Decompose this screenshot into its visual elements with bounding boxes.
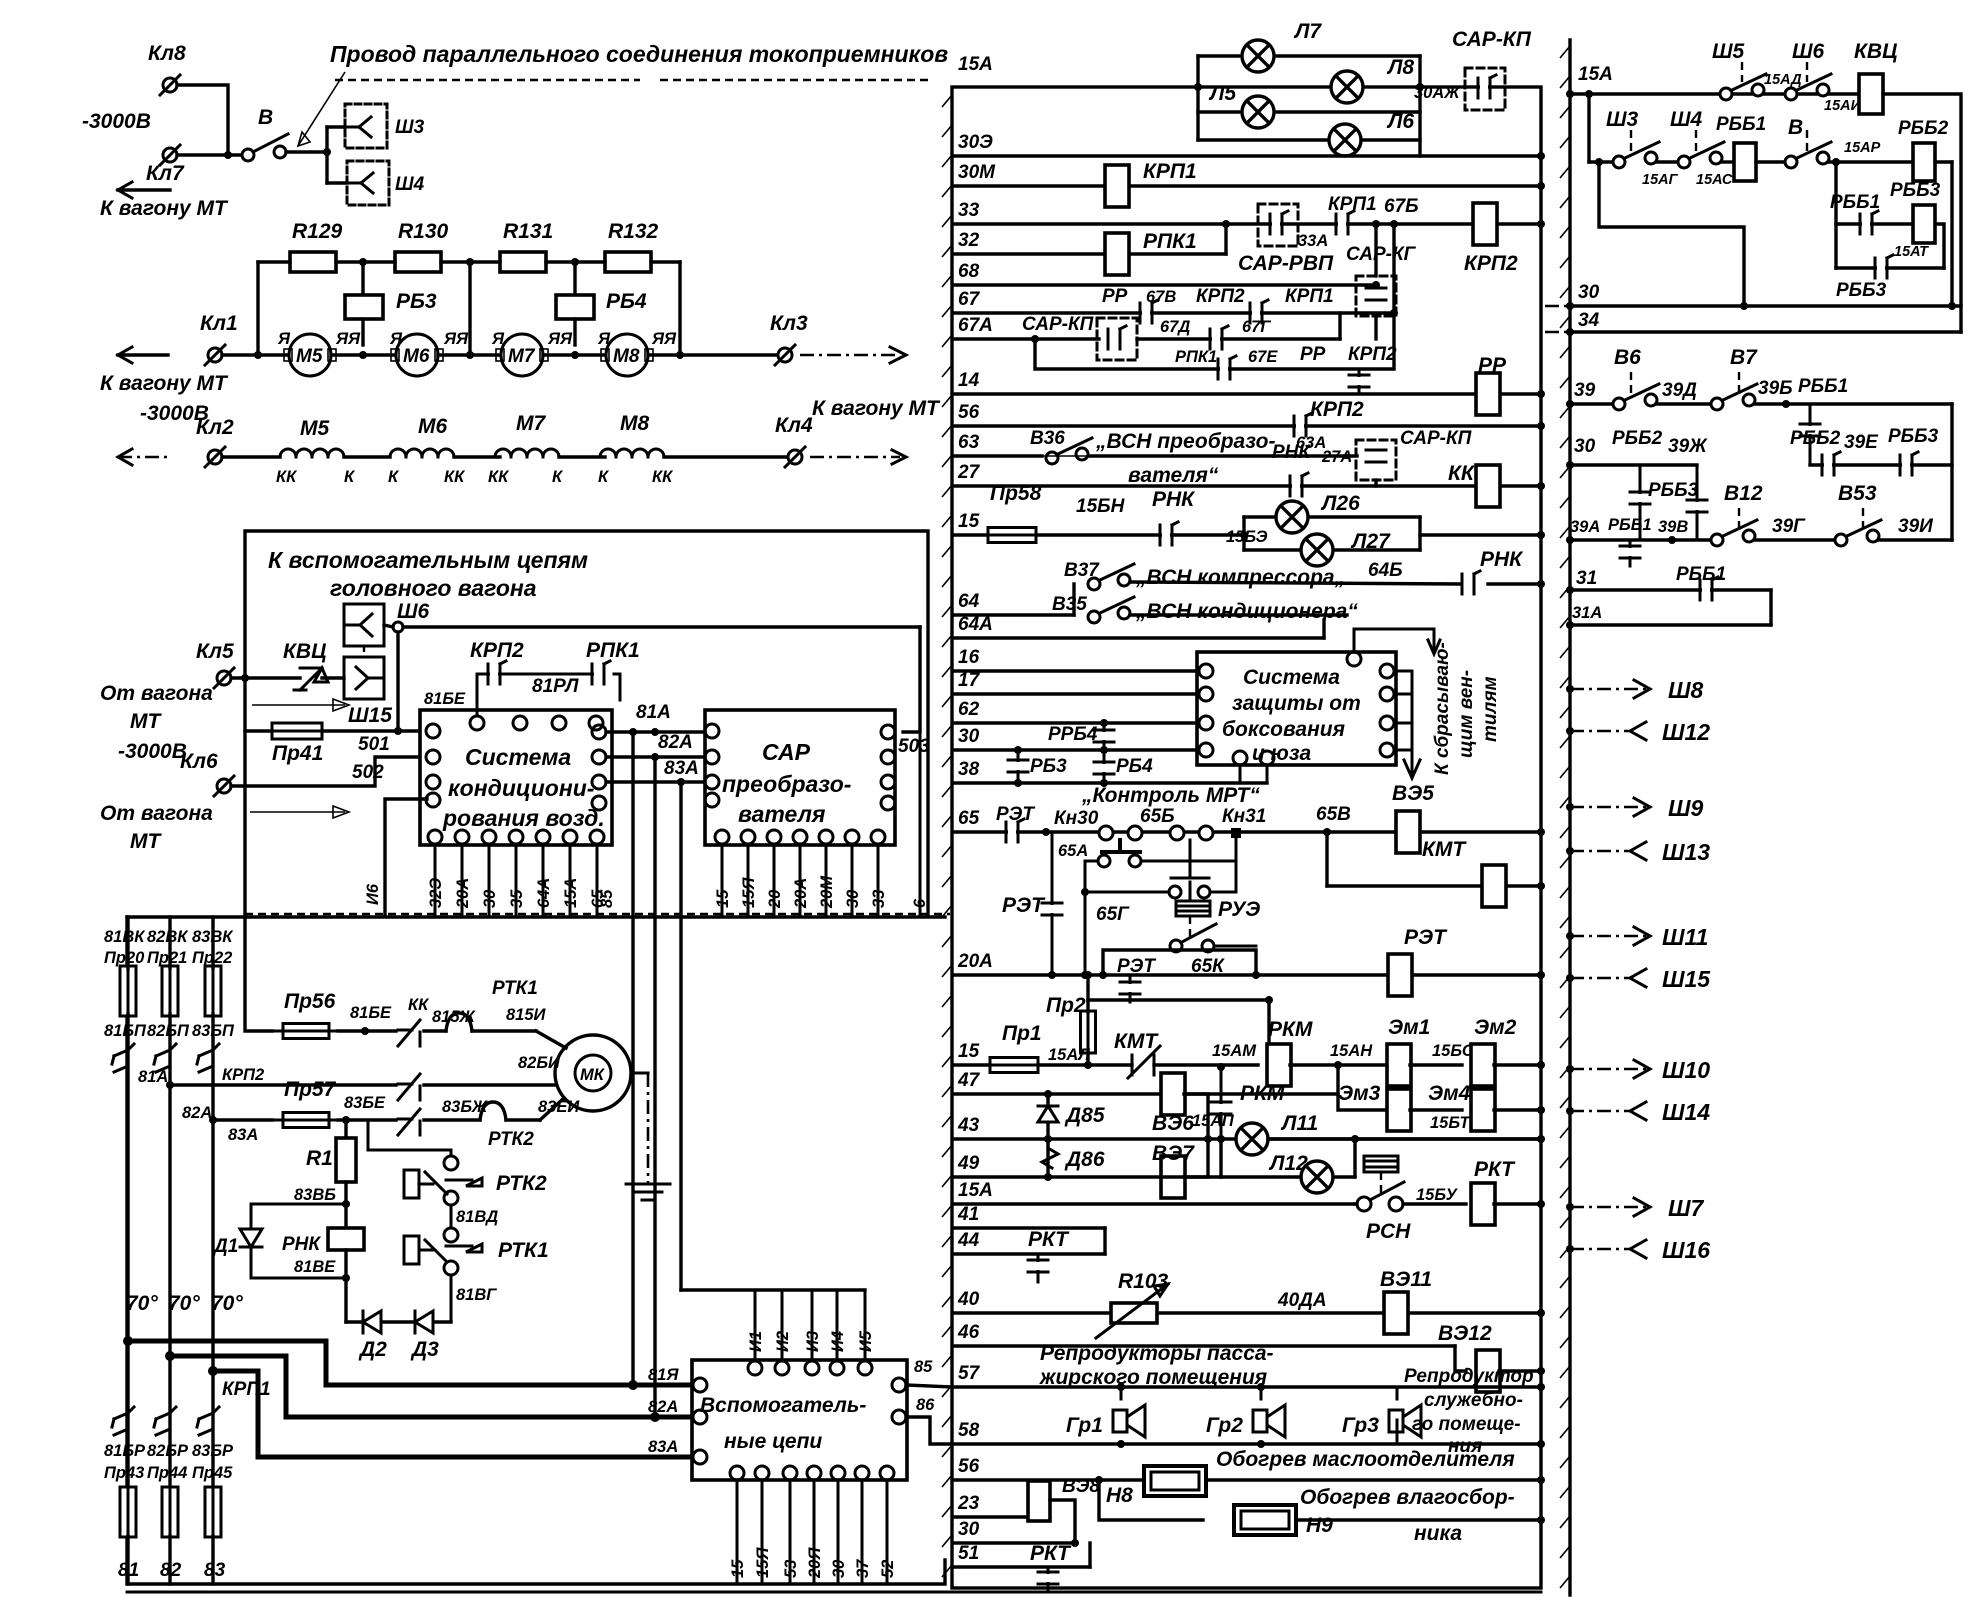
svg-text:Н9: Н9 [1306,1514,1333,1537]
svg-text:Кл4: Кл4 [775,414,813,437]
svg-text:САР-КП: САР-КП [1400,428,1472,449]
svg-text:Пр1: Пр1 [1002,1022,1042,1045]
svg-text:„ВСН преобразо-: „ВСН преобразо- [1095,430,1276,453]
lamp network rails [1196,56,1199,140]
fuse Пр21 [162,958,178,1024]
svg-text:САР-КП: САР-КП [1022,314,1094,335]
svg-text:20М: 20М [818,875,836,909]
svg-text:РТК2: РТК2 [496,1172,547,1195]
svg-text:ВЭ5: ВЭ5 [1392,782,1434,805]
motor М6 [396,334,438,376]
svg-text:30: 30 [844,889,862,908]
wire 82 run [170,1356,700,1417]
svg-text:К вагону МТ: К вагону МТ [100,197,229,220]
svg-text:39И: 39И [1898,516,1933,537]
svg-text:56: 56 [958,1456,980,1477]
svg-text:57: 57 [958,1363,981,1384]
relay КМТ wire [1325,832,1328,886]
svg-text:рования возд.: рования возд. [442,805,605,831]
svg-text:20: 20 [766,889,784,909]
svg-text:РПК1: РПК1 [1143,230,1197,253]
lamp Л26 [1276,501,1308,533]
svg-text:Эм3: Эм3 [1338,1082,1381,1105]
svg-text:Л5: Л5 [1208,82,1236,105]
svg-text:51: 51 [958,1543,979,1564]
svg-text:81ВД: 81ВД [456,1208,498,1226]
svg-text:В7: В7 [1730,346,1758,369]
svg-text:КК: КК [276,468,298,486]
svg-text:щим вен-: щим вен- [1456,670,1477,758]
svg-text:39Д: 39Д [1662,380,1697,401]
svg-text:ВЭ11: ВЭ11 [1380,1268,1432,1291]
svg-text:15Я: 15Я [754,1547,772,1578]
relay РКТ [1403,1202,1466,1205]
svg-text:Провод параллельного соедине: Провод параллельного соединения токоприе… [330,41,948,67]
svg-text:КМТ: КМТ [1422,838,1467,861]
svg-text:Ш9: Ш9 [1668,795,1704,821]
bottom pin stubs Система [434,844,437,914]
svg-text:64Б: 64Б [1368,560,1403,581]
svg-text:В: В [1788,116,1803,139]
svg-text:В36: В36 [1030,428,1065,449]
fuse Пр43 [120,1479,136,1545]
lamp Л6 [1329,124,1361,156]
svg-text:Д3: Д3 [410,1338,439,1361]
svg-text:Система: Система [465,744,571,770]
svg-text:44: 44 [957,1230,980,1251]
svg-text:83БР: 83БР [192,1442,234,1460]
svg-text:РКТ: РКТ [1030,1542,1072,1565]
svg-text:39Г: 39Г [1772,516,1806,537]
svg-text:40: 40 [957,1289,980,1310]
svg-text:Кл3: Кл3 [770,312,808,335]
box auxiliary compressor section [127,917,945,1584]
motor М7 [501,334,543,376]
bus line under aux boxes [245,913,950,915]
svg-text:Пр43: Пр43 [104,1464,144,1482]
svg-text:82А: 82А [658,732,693,753]
svg-text:РТК2: РТК2 [488,1129,534,1150]
svg-text:62: 62 [958,699,980,720]
svg-text:68: 68 [958,261,980,282]
svg-text:67А: 67А [958,315,993,336]
switch РЭТ 65К [1170,924,1216,952]
vertical feeders 81А 82А 83А [631,732,634,1385]
svg-text:Ш6: Ш6 [397,600,430,623]
svg-text:РКМ: РКМ [1240,1082,1285,1105]
wire resistor chain [258,260,290,263]
svg-text:РЭТ: РЭТ [996,804,1035,825]
diode Д85 [1046,1094,1049,1177]
И bus [681,1288,865,1291]
svg-text:83А: 83А [648,1438,678,1456]
lamp Л11 [1217,1135,1225,1143]
wire 836Е row [338,1118,396,1121]
svg-text:Кл5: Кл5 [196,640,234,663]
svg-text:РРБ4: РРБ4 [1048,724,1098,745]
svg-text:вателя“: вателя“ [1128,464,1219,487]
relay РР [1476,373,1500,415]
svg-text:Я: Я [389,330,403,348]
contact КРП2 to РР [1358,369,1361,394]
svg-text:Н8: Н8 [1106,1484,1133,1507]
svg-text:Я: Я [277,330,291,348]
svg-text:33: 33 [870,890,888,908]
svg-text:81ВЕ: 81ВЕ [294,1258,336,1276]
bottom stubs Вспом цепи [736,1480,739,1584]
svg-text:ные цепи: ные цепи [724,1430,822,1453]
svg-text:РНК: РНК [1152,488,1196,511]
field winding wire [222,455,280,458]
svg-text:15АР: 15АР [1844,140,1881,156]
relay КК [1476,465,1500,507]
relay ВЭ12 [1455,1346,1466,1371]
diode Д86 thermal [1042,1148,1058,1168]
svg-text:30: 30 [958,1519,980,1540]
svg-text:Л7: Л7 [1293,20,1322,43]
svg-text:Л8: Л8 [1386,56,1414,79]
svg-text:Л27: Л27 [1350,530,1391,553]
svg-text:головного вагона: головного вагона [330,575,537,601]
relay ВЭ6 [1161,1073,1185,1115]
motor М5 [289,334,331,376]
svg-text:30: 30 [958,726,980,747]
svg-text:30Э: 30Э [958,132,993,153]
svg-text:16: 16 [958,647,980,668]
svg-text:30: 30 [1578,282,1600,303]
svg-text:67: 67 [958,289,981,310]
wire Кл8 to switch В [177,85,228,155]
svg-text:Ш15: Ш15 [1662,966,1711,992]
svg-text:81БП: 81БП [104,1022,147,1040]
svg-text:К сбрасываю-: К сбрасываю- [1432,642,1453,775]
svg-text:РКТ: РКТ [1028,1228,1070,1251]
thermal switch РТК1 [450,1275,453,1322]
box САР преобразователя [705,710,895,845]
svg-text:го помеще-: го помеще- [1412,1414,1521,1435]
svg-text:М8: М8 [613,346,640,367]
svg-text:САР-РВП: САР-РВП [1238,252,1334,275]
svg-text:РББ3: РББ3 [1890,180,1941,201]
svg-text:Пр58: Пр58 [990,482,1042,505]
svg-text:70°: 70° [168,1292,200,1315]
wire И6 stub [385,799,427,914]
svg-text:Ш4: Ш4 [395,174,425,195]
svg-text:81БЕ: 81БЕ [424,690,466,708]
resistor R1 [344,1120,347,1138]
svg-text:Л6: Л6 [1386,110,1414,133]
svg-text:39Е: 39Е [1844,432,1879,453]
connector Ш3 [345,104,387,148]
svg-text:Пр41: Пр41 [272,742,323,765]
svg-text:41: 41 [957,1204,979,1225]
svg-text:КРП2: КРП2 [470,639,524,662]
branch РББ1 contact 15АТ [1834,162,1837,268]
svg-text:81А: 81А [138,1068,168,1086]
svg-text:К вагону МТ: К вагону МТ [100,372,229,395]
svg-text:67Б: 67Б [1384,196,1419,217]
svg-text:39В: 39В [1658,518,1688,536]
svg-text:И1: И1 [747,1331,765,1352]
svg-text:РББ3: РББ3 [1836,280,1887,301]
svg-text:15АН: 15АН [1330,1042,1373,1060]
connector Ш15 [344,657,384,699]
box Система кондиционирования воздуха [420,710,612,845]
connector Ш4 [347,161,389,205]
wires box bottom pins [1239,765,1242,783]
svg-text:65В: 65В [1316,804,1351,825]
svg-text:И6: И6 [364,883,382,905]
wire 501 [322,729,430,732]
relay ВЭ7 [1161,1156,1185,1198]
wire 82А [606,755,705,758]
svg-text:КРП1: КРП1 [1143,160,1197,183]
ground for МК [631,1072,648,1075]
svg-text:РПК1: РПК1 [586,639,640,662]
svg-text:От вагона: От вагона [100,682,213,705]
svg-text:МК: МК [580,1066,606,1084]
svg-text:47: 47 [957,1070,981,1091]
svg-text:40ДА: 40ДА [1277,1290,1327,1311]
svg-text:Я: Я [491,330,505,348]
wire 82БИ row [170,1083,396,1086]
arrow continuation right [800,354,900,357]
svg-text:Пр57: Пр57 [284,1078,337,1101]
svg-text:САР: САР [762,739,811,765]
motor bus wire [222,353,290,356]
wire lamp Л6 [1198,138,1420,141]
svg-text:56: 56 [958,402,980,423]
arrow Ш9 [1570,806,1650,809]
svg-text:Д86: Д86 [1064,1148,1105,1171]
svg-text:15А: 15А [562,878,580,908]
svg-text:27А: 27А [1321,448,1352,466]
svg-text:39Б: 39Б [1758,378,1793,399]
contact РЭТ below 20А [1129,977,1132,1002]
svg-text:Кл6: Кл6 [180,750,218,773]
svg-text:РББ1: РББ1 [1798,376,1848,397]
svg-text:83ВБ: 83ВБ [294,1186,336,1204]
svg-text:30: 30 [481,889,499,908]
svg-text:РУЭ: РУЭ [1218,898,1260,921]
svg-text:К вспомогательным цепям: К вспомогательным цепям [268,547,588,573]
svg-text:64А: 64А [535,878,553,908]
wire lamp Л5 [1198,110,1420,113]
svg-text:М7: М7 [516,412,546,435]
svg-text:М5: М5 [300,417,329,440]
svg-text:Ш3: Ш3 [1606,108,1639,131]
relay КРП2 [1473,203,1497,245]
arrow От вагона МТ [252,704,345,706]
svg-text:65Г: 65Г [1096,904,1130,925]
svg-text:тилям: тилям [1480,676,1501,742]
wire 67Е loop [1035,313,1394,369]
svg-text:81: 81 [118,1560,139,1581]
svg-text:34: 34 [1578,310,1600,331]
relay ВЭ11 [1384,1292,1408,1334]
wire 81А [606,730,705,733]
svg-text:РБ4: РБ4 [1116,756,1153,777]
svg-text:В6: В6 [1614,346,1641,369]
svg-text:82БР: 82БР [147,1442,189,1460]
svg-text:67Д: 67Д [1160,318,1190,336]
svg-text:боксования: боксования [1222,718,1345,741]
contact РББ1 below 39А [1629,540,1632,566]
svg-text:R129: R129 [292,220,343,243]
arrow Ш10 [1570,1068,1650,1071]
svg-text:РЭТ: РЭТ [1002,894,1046,917]
svg-text:Гр1: Гр1 [1066,1414,1103,1437]
wire lamp Л7 [1198,54,1420,57]
svg-text:„Контроль МРТ“: „Контроль МРТ“ [1081,784,1260,807]
svg-text:39Ж: 39Ж [1668,436,1708,457]
svg-text:15АГ: 15АГ [1642,172,1679,188]
svg-text:85: 85 [914,1358,933,1376]
svg-text:Вспомогатель-: Вспомогатель- [700,1394,866,1417]
svg-text:15АТ: 15АТ [1894,244,1929,260]
svg-text:39А: 39А [1570,518,1600,536]
arrow К вагону МТ -3000В [118,353,168,356]
svg-text:15БТ: 15БТ [1430,1114,1471,1132]
motor М8 [606,334,648,376]
relay КМТ [1482,865,1506,907]
svg-text:РТК1: РТК1 [492,978,538,999]
svg-text:82А: 82А [648,1398,678,1416]
svg-text:РБ3: РБ3 [396,290,437,313]
svg-text:81Я: 81Я [648,1366,679,1384]
svg-text:20Я: 20Я [806,1547,824,1579]
svg-text:В: В [258,106,273,129]
svg-text:Ш16: Ш16 [1662,1237,1710,1263]
svg-text:31А: 31А [1572,604,1602,622]
svg-text:65Б: 65Б [1140,806,1175,827]
fuse Пр44 [162,1479,178,1545]
heater Н9 wire [1099,1480,1203,1520]
svg-text:Ш8: Ш8 [1668,677,1704,703]
svg-text:Ш10: Ш10 [1662,1057,1710,1083]
svg-text:30АЖ: 30АЖ [1414,84,1461,102]
contact САР-РВП [1258,204,1298,246]
svg-text:Обогрев маслоотделителя: Обогрев маслоотделителя [1216,1448,1515,1471]
svg-text:ЯЯ: ЯЯ [443,330,469,348]
svg-text:53: 53 [782,1560,800,1578]
diode Д1 [251,1204,346,1226]
svg-text:РКМ: РКМ [1268,1018,1313,1041]
svg-text:РР: РР [1102,286,1128,307]
wire 83А [606,780,705,783]
svg-text:Кл2: Кл2 [196,416,234,439]
wire risers to motor bus [256,262,259,355]
svg-text:503: 503 [898,736,930,757]
svg-text:Д1: Д1 [212,1236,238,1257]
svg-text:М5: М5 [296,346,323,367]
svg-text:17: 17 [958,670,981,691]
wire to right edge [1883,94,1961,332]
svg-text:32: 32 [958,230,980,251]
svg-text:15АЛ: 15АЛ [1048,1046,1090,1064]
lamp Л27 [1301,534,1333,566]
svg-text:14: 14 [958,370,980,391]
svg-text:М6: М6 [418,415,447,438]
svg-text:-3000В: -3000В [82,110,151,133]
svg-text:От вагона: От вагона [100,802,213,825]
svg-text:64А: 64А [958,614,993,635]
svg-text:27: 27 [957,462,981,483]
svg-text:52: 52 [879,1560,897,1578]
svg-text:кондициони-: кондициони- [448,775,594,801]
svg-text:КК: КК [408,996,430,1014]
right bus [1568,40,1571,1595]
svg-text:15Я: 15Я [740,877,758,908]
svg-text:Система: Система [1243,666,1340,689]
svg-text:R1: R1 [306,1147,333,1170]
svg-text:ника: ника [1414,1522,1462,1545]
svg-text:-3000В: -3000В [118,740,187,763]
svg-text:Кн30: Кн30 [1054,808,1099,829]
svg-text:15: 15 [958,1041,980,1062]
svg-text:КК: КК [1448,462,1476,485]
svg-text:Репродуктор: Репродуктор [1404,1366,1534,1387]
svg-text:РСН: РСН [1366,1220,1411,1243]
svg-text:64: 64 [958,591,980,612]
svg-text:Л11: Л11 [1280,1112,1318,1135]
breaker contacts 81 82 83 [112,1042,134,1080]
svg-text:РББ1: РББ1 [1716,114,1766,135]
bottom pin stubs САР [721,844,724,914]
svg-text:РЭТ: РЭТ [1404,926,1448,949]
svg-text:САР-КГ: САР-КГ [1346,244,1417,265]
svg-text:49: 49 [957,1153,980,1174]
svg-text:39: 39 [1574,380,1596,401]
relay РЭТ [1388,954,1412,996]
svg-text:Кн31: Кн31 [1222,806,1266,827]
wire Кл5 [231,676,300,679]
svg-text:81БР: 81БР [104,1442,146,1460]
svg-text:81БЕ: 81БЕ [350,1004,392,1022]
heater Н8 [1144,1466,1206,1496]
svg-text:Ш7: Ш7 [1668,1195,1705,1221]
wire Ш6 to САР box [393,622,403,632]
fuse Пр22 [205,958,221,1024]
fuse Пр20 [120,958,136,1024]
relay КРП1 [1105,165,1129,207]
svg-text:R131: R131 [503,220,553,243]
middle panel frame [952,87,1541,1588]
svg-text:65: 65 [958,808,980,829]
svg-text:Ш14: Ш14 [1662,1099,1710,1125]
svg-text:83А: 83А [664,758,699,779]
svg-text:33А: 33А [1298,232,1328,250]
svg-text:15А: 15А [958,1180,993,1201]
svg-text:Ш15: Ш15 [348,704,392,727]
svg-text:15АМ: 15АМ [1212,1042,1257,1060]
box К вспомогательным цепям головного вагона [245,531,928,914]
svg-text:501: 501 [358,734,390,755]
wire РББ2 down [1950,162,1953,306]
svg-text:Пр56: Пр56 [284,990,336,1013]
wire 83 run [213,1371,700,1457]
fuse Пр45 [205,1479,221,1545]
svg-text:Л26: Л26 [1320,492,1360,515]
svg-text:И4: И4 [829,1331,847,1352]
svg-text:502: 502 [352,762,384,783]
callout line to wire [298,72,345,146]
svg-text:РББ2: РББ2 [1790,428,1841,449]
svg-text:15: 15 [714,889,732,908]
svg-text:15АП: 15АП [1192,1112,1235,1130]
wire 81БЕ row [338,1029,396,1032]
svg-text:Обогрев влагосбор-: Обогрев влагосбор- [1300,1486,1515,1509]
